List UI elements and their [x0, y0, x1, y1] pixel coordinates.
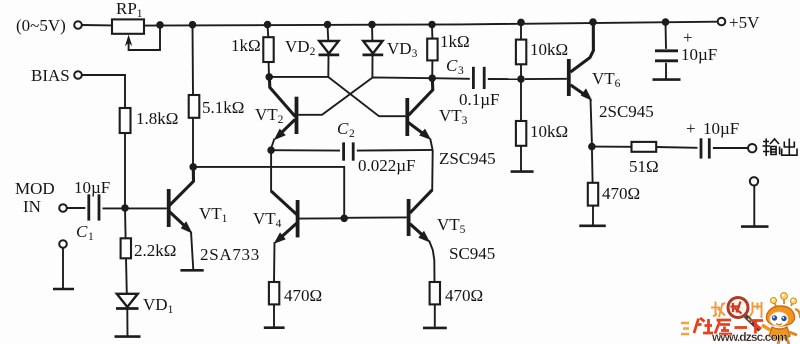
svg-text:www.dzsc.com: www.dzsc.com [711, 330, 787, 344]
svg-text:ZSC945: ZSC945 [439, 149, 496, 168]
transistor VT5 [407, 199, 411, 236]
svg-text:MOD: MOD [15, 179, 55, 198]
svg-text:2.2kΩ: 2.2kΩ [134, 241, 176, 260]
svg-text:10kΩ: 10kΩ [530, 122, 568, 141]
node dot rail-1k left [264, 21, 272, 29]
wire 5.1k to VT1 collector node [192, 118, 194, 167]
wire VT5 collector to VT3 emitter [431, 150, 434, 191]
svg-text:+5V: +5V [729, 13, 760, 32]
node dot rail-1k right [428, 21, 436, 29]
ground 470 VT6 [579, 225, 606, 228]
wire 1.8k to base node [124, 133, 126, 208]
node dot rail-cap10uF [662, 18, 670, 26]
wire node C down to VT4 collector [270, 150, 272, 192]
svg-text:0.1µF: 0.1µF [459, 90, 500, 109]
svg-text:1.8kΩ: 1.8kΩ [136, 109, 178, 128]
node dot rail-RP1 wiper [156, 21, 164, 29]
transistor VT2 [269, 78, 295, 117]
wire node C to C2 [271, 149, 340, 151]
ground output [741, 225, 769, 228]
resistor 2.2k [124, 208, 127, 238]
capacitor C1 10uF [87, 194, 90, 220]
wire 0~5V to RP1 [82, 24, 112, 26]
node dot rail-VD3 [368, 21, 376, 29]
node E base rail junction [340, 215, 348, 223]
node dot rail-5.1k [189, 21, 197, 29]
capacitor output 10uF [700, 138, 703, 158]
svg-text:10µF: 10µF [703, 119, 739, 138]
node C VT2 emitter [267, 146, 275, 154]
wire VT5 base [344, 216, 407, 218]
svg-text:C: C [446, 56, 458, 75]
node F VT1 base [121, 204, 129, 212]
terminal input ground [59, 240, 67, 248]
resistor 1k right [431, 25, 433, 39]
node D VT1 collector junction [189, 163, 197, 171]
magnifier circle [728, 298, 748, 318]
ground 10k [511, 170, 534, 173]
resistor 470 VT5 [430, 282, 440, 304]
ground VT5 [423, 327, 447, 330]
svg-text:5.1kΩ: 5.1kΩ [202, 98, 244, 117]
svg-text:1kΩ: 1kΩ [440, 32, 470, 51]
transistor VT6 [525, 78, 567, 80]
diode VD3 [371, 25, 373, 41]
resistor 51 ohm [592, 146, 632, 148]
wire node D across to VT4/VT5 base rail [193, 167, 344, 218]
capacitor C3 0.1uF [432, 77, 470, 80]
watermark text 维库一下 [694, 318, 763, 334]
label 输出 (drawn glyphs) [763, 139, 798, 157]
resistor 1.8k [120, 108, 131, 133]
wire VD3 to node B [372, 77, 432, 80]
node dot rail-10k [517, 19, 525, 27]
transistor VT4 [271, 191, 297, 215]
svg-text:IN: IN [23, 197, 41, 216]
svg-text:+: + [686, 119, 696, 138]
node H VT6 emitter [588, 143, 596, 151]
terminal +5V [718, 18, 726, 26]
capacitor 10uF supply [665, 22, 668, 49]
ground VD1 [115, 335, 141, 338]
resistor 1k left [267, 25, 270, 37]
diode VD2 [327, 25, 330, 41]
watermark logo 找芯片 [711, 298, 762, 331]
wire C2 to VT3 emitter [357, 149, 433, 152]
svg-text:10kΩ: 10kΩ [530, 40, 568, 59]
diode VD1 [117, 294, 138, 307]
svg-text:470Ω: 470Ω [602, 184, 640, 203]
terminal output ground [750, 177, 758, 185]
capacitor C2 0.022uF [342, 142, 345, 160]
node dot rail-VT6 collector [589, 18, 597, 26]
svg-text:10µF: 10µF [681, 45, 717, 64]
node B VT3 collector [428, 74, 436, 82]
svg-text:10µF: 10µF [74, 178, 110, 197]
svg-text:51Ω: 51Ω [629, 157, 659, 176]
svg-text:470Ω: 470Ω [445, 286, 483, 305]
svg-text:2SA733: 2SA733 [200, 245, 260, 264]
wire 2.2k to VD1 [125, 258, 128, 293]
svg-text:C: C [337, 119, 349, 138]
wire cross-couple VD3 node to VT2 base [298, 78, 372, 115]
ground VT1 [180, 269, 203, 272]
ground VT4 [264, 326, 285, 329]
wire top supply rail [144, 22, 718, 26]
watermark speed marks [681, 323, 689, 334]
svg-text:SC945: SC945 [449, 244, 495, 263]
wire node A to VD2 [269, 76, 328, 78]
ground supply cap [653, 78, 681, 81]
svg-text:1kΩ: 1kΩ [231, 36, 261, 55]
resistor 5.1k [192, 25, 195, 95]
node dot rail-VD2 [324, 21, 332, 29]
wire cross-couple VD2 node to VT3 base [328, 77, 405, 116]
svg-text:470Ω: 470Ω [284, 286, 322, 305]
svg-text:2: 2 [349, 128, 355, 140]
resistor 10k lower [520, 79, 522, 121]
wire RP1 wiper [129, 26, 160, 50]
potentiometer RP1 [112, 19, 144, 33]
node G VT6 base [517, 75, 525, 83]
wire BIAS to 1.8k [82, 75, 125, 108]
ground input [53, 288, 74, 291]
wire MOD IN to C1 [67, 207, 85, 209]
svg-text:BIAS: BIAS [31, 66, 70, 85]
wire VT5 emitter to 470 [429, 241, 435, 283]
terminal output [748, 144, 756, 152]
svg-text:0.022µF: 0.022µF [358, 156, 416, 175]
terminal (0~5V) [74, 21, 82, 29]
node A VT2 collector [265, 73, 273, 81]
resistor 470 VT4 [269, 282, 279, 304]
svg-text:(0~5V): (0~5V) [16, 16, 66, 35]
svg-text:2SC945: 2SC945 [599, 102, 654, 121]
svg-text:3: 3 [458, 65, 464, 77]
magnifier handle [746, 316, 761, 330]
resistor 470 VT6 [591, 147, 594, 183]
terminal BIAS [74, 71, 82, 79]
resistor 10k upper [520, 22, 522, 39]
transistor VT3 [409, 79, 433, 115]
transistor VT1 [170, 168, 194, 205]
svg-text:1: 1 [88, 231, 94, 243]
wire VT4 base [300, 217, 345, 219]
watermark mascot [762, 293, 800, 344]
wire C1 to VT1 base [103, 207, 167, 209]
svg-text:C: C [76, 222, 88, 241]
